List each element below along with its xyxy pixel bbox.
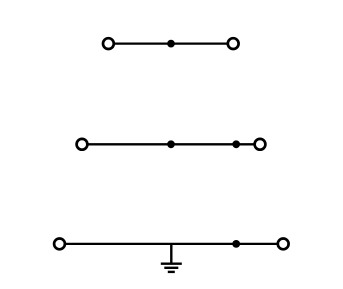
ground bar 2 — [164, 267, 178, 269]
terminal (open circle) bottom-left — [54, 239, 65, 250]
wire: middle level conductor — [88, 143, 254, 145]
junction dot middle-right — [232, 140, 240, 148]
terminal (open circle) top-right — [228, 38, 239, 49]
junction dot on top wire — [167, 40, 175, 48]
wire: bottom level conductor — [66, 243, 277, 245]
junction dot bottom — [232, 240, 240, 248]
terminal (open circle) top-left — [103, 38, 114, 49]
wire: top level conductor — [115, 42, 228, 44]
ground bar 3 (shortest) — [168, 271, 175, 273]
ground bar 1 (widest) — [161, 263, 182, 265]
terminal (open circle) middle-right — [255, 139, 266, 150]
ground symbol stem — [170, 244, 172, 264]
junction dot middle-center — [167, 140, 175, 148]
terminal (open circle) bottom-right — [278, 239, 289, 250]
terminal (open circle) middle-left — [77, 139, 88, 150]
